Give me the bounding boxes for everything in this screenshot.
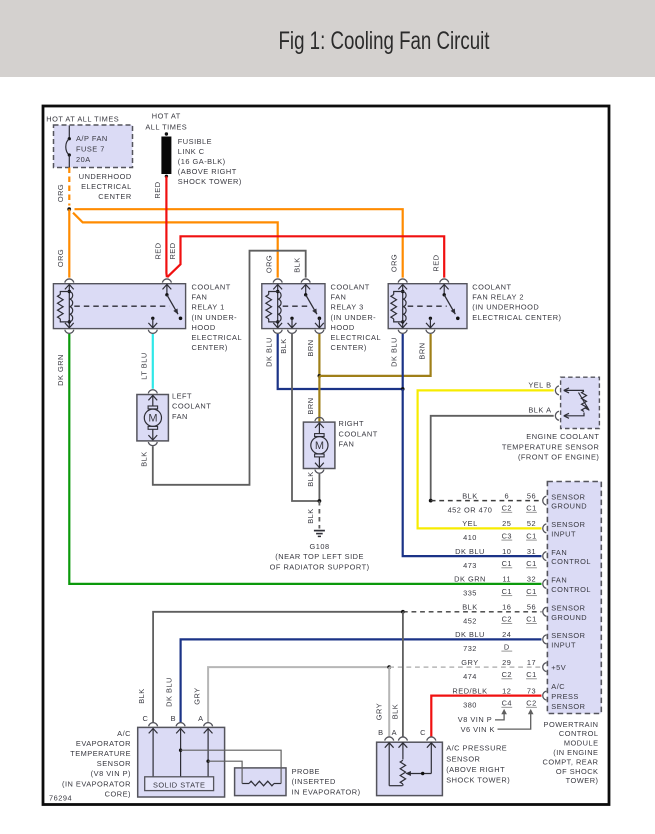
wire BLK dashed to PCM pin 6 bbox=[431, 500, 542, 502]
svg-text:A/C PRESSURE: A/C PRESSURE bbox=[446, 744, 507, 753]
fusible link C bbox=[145, 111, 241, 186]
wire YEL ECT to PCM sensor input bbox=[418, 390, 554, 528]
svg-text:A: A bbox=[198, 714, 203, 723]
svg-text:RED: RED bbox=[153, 181, 162, 198]
label V6 VIN K to C2 bbox=[461, 709, 534, 734]
svg-text:SENSOR: SENSOR bbox=[551, 520, 585, 529]
svg-text:RIGHT: RIGHT bbox=[339, 419, 365, 428]
svg-text:C4: C4 bbox=[502, 699, 512, 708]
svg-text:RED: RED bbox=[168, 242, 177, 259]
svg-text:HOOD: HOOD bbox=[331, 323, 355, 332]
svg-text:17: 17 bbox=[527, 658, 536, 667]
svg-text:B: B bbox=[171, 714, 176, 723]
svg-text:SENSOR: SENSOR bbox=[551, 702, 585, 711]
svg-text:COOLANT: COOLANT bbox=[172, 402, 211, 411]
svg-text:IN EVAPORATOR): IN EVAPORATOR) bbox=[292, 787, 361, 796]
wire BRN junction to right fan bbox=[306, 376, 319, 422]
svg-text:C1: C1 bbox=[526, 670, 536, 679]
svg-text:COMPT, REAR: COMPT, REAR bbox=[542, 757, 598, 766]
svg-text:BLK: BLK bbox=[462, 491, 477, 500]
svg-text:FAN: FAN bbox=[339, 439, 355, 448]
wire DK BLU relay2 to junction bbox=[390, 334, 403, 389]
svg-text:410: 410 bbox=[463, 533, 477, 542]
svg-text:BRN: BRN bbox=[306, 397, 315, 414]
svg-text:A: A bbox=[546, 406, 551, 415]
node BRN junction bbox=[318, 374, 322, 378]
svg-text:GRY: GRY bbox=[375, 703, 384, 720]
svg-text:ELECTRICAL: ELECTRICAL bbox=[81, 182, 132, 191]
wire DK BLU junction to PCM fan control bbox=[403, 389, 542, 556]
svg-text:(IN UNDER-: (IN UNDER- bbox=[192, 313, 238, 322]
svg-text:EVAPORATOR: EVAPORATOR bbox=[76, 739, 131, 748]
svg-text:C2: C2 bbox=[526, 699, 536, 708]
svg-text:SENSOR: SENSOR bbox=[551, 631, 585, 640]
svg-text:BLK: BLK bbox=[528, 406, 543, 415]
svg-text:(FRONT OF ENGINE): (FRONT OF ENGINE) bbox=[518, 452, 599, 461]
wire LT BLU relay1 to left fan bbox=[139, 334, 152, 389]
svg-text:C: C bbox=[142, 714, 148, 723]
relay: coolant fan relay 1 bbox=[53, 279, 242, 352]
wire RED fusible link to relay 1 pin bbox=[153, 176, 167, 277]
svg-text:6: 6 bbox=[504, 491, 509, 500]
sensor: A/C evaporator temperature sensor bbox=[62, 677, 225, 798]
svg-text:RED: RED bbox=[154, 242, 163, 259]
svg-text:LT BLU: LT BLU bbox=[139, 352, 148, 379]
svg-text:C1: C1 bbox=[526, 504, 536, 513]
svg-text:BLK: BLK bbox=[390, 704, 399, 719]
svg-text:LINK C: LINK C bbox=[178, 147, 205, 156]
svg-text:DK BLU: DK BLU bbox=[165, 677, 174, 707]
svg-text:(IN ENGINE: (IN ENGINE bbox=[553, 748, 598, 757]
wire ORG junction to relay 2 pin bbox=[75, 209, 403, 277]
svg-text:ORG: ORG bbox=[56, 249, 65, 267]
svg-text:BLK: BLK bbox=[137, 688, 146, 703]
svg-text:ENGINE COOLANT: ENGINE COOLANT bbox=[526, 432, 599, 441]
svg-text:CONTROL: CONTROL bbox=[551, 557, 591, 566]
svg-text:A/C: A/C bbox=[117, 729, 131, 738]
svg-text:GRY: GRY bbox=[193, 687, 202, 704]
PCM pin 29/17 +5V (wire 474 GRY) bbox=[461, 658, 566, 681]
svg-text:COOLANT: COOLANT bbox=[331, 283, 370, 292]
svg-text:CONTROL: CONTROL bbox=[551, 585, 591, 594]
PCM pin 16/56 sensor ground (wire 452 BLK) bbox=[462, 603, 587, 626]
svg-text:76294: 76294 bbox=[49, 794, 72, 803]
svg-text:452 OR 470: 452 OR 470 bbox=[448, 505, 493, 514]
svg-text:BLK: BLK bbox=[139, 451, 148, 466]
svg-text:V6 VIN K: V6 VIN K bbox=[461, 725, 495, 734]
relay: coolant fan relay 3 bbox=[262, 279, 381, 352]
svg-text:SENSOR: SENSOR bbox=[97, 759, 131, 768]
node orange junction bbox=[67, 207, 71, 211]
svg-text:FAN: FAN bbox=[551, 548, 567, 557]
wire BLK right fan to ground node bbox=[306, 471, 319, 501]
motor: left coolant fan bbox=[137, 390, 211, 446]
PCM pin 11/32 fan control (wire 335 DK GRN) bbox=[454, 575, 591, 598]
svg-text:INPUT: INPUT bbox=[551, 530, 576, 539]
svg-text:BLK: BLK bbox=[462, 603, 477, 612]
svg-text:TEMPERATURE: TEMPERATURE bbox=[70, 749, 131, 758]
svg-text:A: A bbox=[392, 728, 397, 737]
svg-text:31: 31 bbox=[527, 547, 536, 556]
svg-text:SENSOR: SENSOR bbox=[551, 492, 585, 501]
svg-text:ORG: ORG bbox=[265, 255, 274, 273]
svg-text:BRN: BRN bbox=[418, 342, 427, 359]
svg-text:OF SHOCK: OF SHOCK bbox=[556, 767, 599, 776]
svg-text:ELECTRICAL: ELECTRICAL bbox=[192, 333, 243, 342]
svg-text:DK GRN: DK GRN bbox=[454, 575, 486, 584]
svg-text:SENSOR: SENSOR bbox=[551, 604, 585, 613]
wire BLK relay3 to ground node bbox=[279, 334, 319, 501]
wire RED branch to relay 2 pin bbox=[167, 236, 444, 277]
svg-text:CORE): CORE) bbox=[105, 789, 131, 798]
wire GRY junction down to pressure sensor pin B bbox=[375, 667, 390, 737]
wire BRN junction to relay2 pin bbox=[319, 334, 430, 376]
PCM pin 6/56 sensor ground (wire 452 OR 470 BLK) bbox=[448, 491, 588, 514]
svg-text:CONTROL: CONTROL bbox=[559, 729, 599, 738]
svg-text:C1: C1 bbox=[526, 531, 536, 540]
PCM pin 24/D sensor input (wire 732 DK BLU) bbox=[455, 630, 585, 653]
wire GRY evaporator sensor A to junction bbox=[208, 667, 389, 723]
wire DK BLU evaporator sensor B to PCM pin 24 bbox=[181, 639, 542, 723]
svg-text:YEL: YEL bbox=[528, 380, 543, 389]
svg-text:V8 VIN P: V8 VIN P bbox=[458, 715, 492, 724]
svg-text:DK BLU: DK BLU bbox=[264, 337, 273, 367]
svg-text:TEMPERATURE SENSOR: TEMPERATURE SENSOR bbox=[502, 442, 600, 451]
wire RED/BLK pressure sensor C to PCM pin 12 bbox=[431, 696, 541, 737]
wire BLK left fan to relay3 pin (ground loop) bbox=[139, 251, 305, 485]
svg-text:G108: G108 bbox=[310, 542, 330, 551]
svg-text:(IN EVAPORATOR: (IN EVAPORATOR bbox=[62, 779, 131, 788]
svg-text:73: 73 bbox=[527, 686, 536, 695]
svg-text:GROUND: GROUND bbox=[551, 502, 587, 511]
svg-text:BLK: BLK bbox=[306, 508, 315, 523]
svg-text:HOT AT: HOT AT bbox=[152, 111, 181, 120]
svg-text:(INSERTED: (INSERTED bbox=[292, 777, 336, 786]
svg-text:C2: C2 bbox=[502, 504, 512, 513]
svg-text:GRY: GRY bbox=[461, 658, 478, 667]
svg-text:RELAY 1: RELAY 1 bbox=[192, 303, 225, 312]
svg-text:(IN UNDERHOOD: (IN UNDERHOOD bbox=[472, 303, 539, 312]
svg-text:FAN: FAN bbox=[192, 293, 208, 302]
svg-text:OF RADIATOR SUPPORT): OF RADIATOR SUPPORT) bbox=[270, 562, 370, 571]
svg-text:A/C: A/C bbox=[551, 682, 565, 691]
svg-text:12: 12 bbox=[502, 686, 511, 695]
svg-text:SHOCK TOWER): SHOCK TOWER) bbox=[178, 177, 242, 186]
module: powertrain control module (PCM) bbox=[542, 482, 601, 786]
svg-text:FUSIBLE: FUSIBLE bbox=[178, 137, 212, 146]
svg-text:RED/BLK: RED/BLK bbox=[452, 686, 487, 695]
svg-text:CENTER): CENTER) bbox=[192, 343, 228, 352]
svg-text:BRN: BRN bbox=[306, 339, 315, 356]
svg-text:M: M bbox=[315, 440, 324, 452]
PCM pin 12/73 A/C press sensor (wire 380 RED/BLK) bbox=[452, 682, 585, 711]
svg-text:452: 452 bbox=[463, 617, 477, 626]
svg-text:ORG: ORG bbox=[56, 184, 65, 202]
svg-text:FAN: FAN bbox=[551, 576, 567, 585]
svg-text:C1: C1 bbox=[526, 559, 536, 568]
svg-text:COOLANT: COOLANT bbox=[472, 283, 511, 292]
label V8 VIN P to C4 bbox=[458, 709, 507, 724]
svg-text:GROUND: GROUND bbox=[551, 613, 587, 622]
svg-text:COOLANT: COOLANT bbox=[192, 283, 231, 292]
wire evap A to probe left lead bbox=[208, 761, 242, 783]
wire ORG fuse to junction (dashed) bbox=[56, 168, 69, 206]
svg-text:32: 32 bbox=[527, 575, 536, 584]
svg-text:PROBE: PROBE bbox=[292, 767, 320, 776]
motor: right coolant fan bbox=[303, 417, 377, 473]
relay: coolant fan relay 2 bbox=[388, 279, 561, 333]
wire BLK dashed junction to PCM pin 16 bbox=[403, 611, 542, 613]
svg-text:BLK: BLK bbox=[279, 338, 288, 353]
wire DK GRN relay1 to PCM fan control bbox=[56, 334, 542, 584]
svg-text:474: 474 bbox=[463, 672, 477, 681]
wire BLK to ground G108 (dashed) bbox=[306, 501, 319, 529]
node BLK junction row5 bbox=[401, 610, 405, 614]
svg-text:PRESS: PRESS bbox=[551, 692, 579, 701]
svg-text:BLK: BLK bbox=[293, 257, 302, 272]
svg-text:DK GRN: DK GRN bbox=[56, 354, 65, 386]
svg-text:UNDERHOOD: UNDERHOOD bbox=[79, 172, 132, 181]
svg-text:(ABOVE RIGHT: (ABOVE RIGHT bbox=[178, 167, 237, 176]
title banner bbox=[0, 0, 655, 77]
svg-text:(V8 VIN P): (V8 VIN P) bbox=[91, 769, 131, 778]
svg-text:C1: C1 bbox=[526, 615, 536, 624]
svg-text:DK BLU: DK BLU bbox=[390, 337, 399, 367]
svg-text:20A: 20A bbox=[76, 155, 91, 164]
svg-text:CENTER: CENTER bbox=[98, 192, 131, 201]
svg-text:DK BLU: DK BLU bbox=[455, 630, 485, 639]
svg-text:335: 335 bbox=[463, 589, 477, 598]
wire GRY dashed junction to PCM pin 29 bbox=[389, 666, 541, 668]
wire BRN relay3 to junction bbox=[306, 334, 320, 376]
svg-text:473: 473 bbox=[463, 561, 477, 570]
svg-text:LEFT: LEFT bbox=[172, 392, 192, 401]
svg-text:RELAY 3: RELAY 3 bbox=[331, 303, 364, 312]
svg-text:Fig 1: Cooling Fan Circuit: Fig 1: Cooling Fan Circuit bbox=[279, 27, 490, 55]
wire BLK junction down to pressure sensor pin A bbox=[390, 612, 403, 737]
svg-text:C2: C2 bbox=[502, 670, 512, 679]
sensor: engine coolant temperature sensor bbox=[502, 377, 600, 461]
svg-text:HOT AT ALL TIMES: HOT AT ALL TIMES bbox=[46, 115, 119, 124]
svg-text:MODULE: MODULE bbox=[564, 739, 599, 748]
svg-text:FAN: FAN bbox=[172, 412, 188, 421]
node evap B junction bbox=[179, 749, 182, 752]
svg-text:56: 56 bbox=[527, 603, 536, 612]
svg-text:ALL TIMES: ALL TIMES bbox=[145, 123, 187, 132]
svg-text:56: 56 bbox=[527, 491, 536, 500]
svg-text:M: M bbox=[148, 413, 157, 425]
svg-text:24: 24 bbox=[502, 630, 511, 639]
node sensor ground junction bbox=[429, 499, 433, 503]
wire BLK evaporator sensor C to junction bbox=[153, 612, 403, 723]
svg-text:29: 29 bbox=[502, 658, 511, 667]
wire BLK ECT to sensor ground node bbox=[431, 416, 554, 501]
svg-text:(16 GA-BLK): (16 GA-BLK) bbox=[178, 157, 226, 166]
ground G108 bbox=[270, 531, 370, 572]
svg-text:RED: RED bbox=[432, 254, 441, 271]
svg-text:C2: C2 bbox=[502, 615, 512, 624]
svg-text:ELECTRICAL: ELECTRICAL bbox=[331, 333, 382, 342]
svg-text:C1: C1 bbox=[526, 587, 536, 596]
svg-text:FUSE 7: FUSE 7 bbox=[76, 144, 105, 153]
svg-text:SOLID STATE: SOLID STATE bbox=[153, 781, 205, 790]
svg-text:YEL: YEL bbox=[462, 519, 477, 528]
svg-text:C3: C3 bbox=[502, 531, 512, 540]
wire evap B to probe right lead bbox=[181, 750, 282, 783]
svg-text:C1: C1 bbox=[502, 559, 512, 568]
svg-text:TOWER): TOWER) bbox=[566, 776, 599, 785]
svg-text:ORG: ORG bbox=[390, 254, 399, 272]
svg-text:A/P FAN: A/P FAN bbox=[76, 134, 108, 143]
svg-text:+5V: +5V bbox=[551, 663, 566, 672]
svg-text:D: D bbox=[504, 642, 510, 651]
svg-text:B: B bbox=[546, 380, 551, 389]
node ground junction bbox=[318, 499, 322, 503]
svg-text:CENTER): CENTER) bbox=[331, 343, 367, 352]
svg-text:BLK: BLK bbox=[306, 471, 315, 486]
node evap A junction bbox=[206, 760, 209, 763]
svg-text:SENSOR: SENSOR bbox=[446, 754, 480, 763]
svg-text:FAN RELAY 2: FAN RELAY 2 bbox=[472, 293, 524, 302]
svg-text:(IN UNDER-: (IN UNDER- bbox=[331, 313, 377, 322]
svg-text:B: B bbox=[378, 728, 383, 737]
svg-text:INPUT: INPUT bbox=[551, 641, 576, 650]
node DK BLU junction bbox=[401, 387, 405, 391]
svg-text:ELECTRICAL CENTER): ELECTRICAL CENTER) bbox=[472, 313, 561, 322]
svg-text:52: 52 bbox=[527, 519, 536, 528]
wire ORG branch to relay 3 pin bbox=[73, 213, 278, 278]
svg-text:(NEAR TOP LEFT SIDE: (NEAR TOP LEFT SIDE bbox=[275, 552, 364, 561]
svg-text:11: 11 bbox=[502, 575, 511, 584]
wire ORG junction to relay 1 pin bbox=[56, 209, 69, 277]
svg-text:C1: C1 bbox=[502, 587, 512, 596]
PCM pin 25/52 sensor input (wire 410 YEL) bbox=[462, 519, 585, 542]
svg-text:10: 10 bbox=[502, 547, 511, 556]
node GRY junction row7 bbox=[387, 665, 391, 669]
fuse F7 A/P FAN 20A (underhood electrical center) bbox=[46, 115, 132, 202]
probe (inserted in evaporator) bbox=[235, 767, 361, 796]
svg-text:380: 380 bbox=[463, 700, 477, 709]
svg-text:COOLANT: COOLANT bbox=[339, 429, 378, 438]
wire DK BLU relay3 to junction bbox=[264, 334, 402, 389]
svg-text:25: 25 bbox=[502, 519, 511, 528]
svg-text:(ABOVE RIGHT: (ABOVE RIGHT bbox=[446, 765, 505, 774]
PCM pin 10/31 fan control (wire 473 DK BLU) bbox=[455, 547, 591, 570]
svg-text:16: 16 bbox=[502, 603, 511, 612]
svg-text:HOOD: HOOD bbox=[192, 323, 216, 332]
svg-text:DK BLU: DK BLU bbox=[455, 547, 485, 556]
svg-text:POWERTRAIN: POWERTRAIN bbox=[544, 720, 599, 729]
sensor: A/C pressure sensor bbox=[377, 728, 511, 796]
svg-text:C: C bbox=[420, 728, 426, 737]
svg-text:732: 732 bbox=[463, 644, 477, 653]
svg-text:FAN: FAN bbox=[331, 293, 347, 302]
svg-text:SHOCK TOWER): SHOCK TOWER) bbox=[446, 776, 510, 785]
